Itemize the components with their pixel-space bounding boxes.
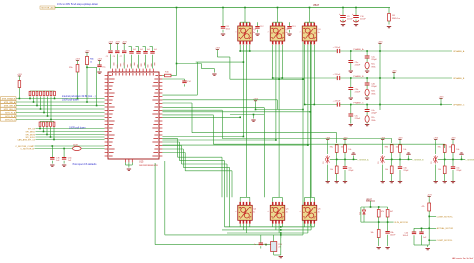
svg-text:SMD-1m: SMD-1m — [392, 18, 400, 20]
svg-text:D1: D1 — [378, 162, 380, 164]
wire climit column — [428, 216, 430, 241]
resistor R sense A lower — [330, 166, 338, 181]
svg-text:10k: 10k — [438, 169, 441, 171]
power +3V3 pullup right — [97, 58, 103, 64]
power +3V3 pullup left — [75, 58, 81, 64]
wire sense feed C — [230, 115, 264, 198]
label SPI_CS — [28, 128, 36, 130]
power +3V3 cap bank — [108, 41, 127, 50]
power +3V3 sense A left — [325, 137, 331, 154]
svg-text:C6a: C6a — [348, 167, 351, 169]
svg-text:R5b: R5b — [69, 67, 72, 69]
capacitor C6 100nF — [113, 51, 120, 69]
wire gate bundle 5 — [162, 153, 232, 198]
power +3V3 row B — [392, 70, 398, 78]
power +3V3 sense C right — [451, 137, 457, 145]
wire MTR_INH_A — [16, 101, 105, 103]
svg-text:1: 1 — [235, 211, 237, 212]
svg-text:220uF: 220uF — [335, 101, 341, 103]
power +3V3 sense B left — [380, 137, 386, 154]
ground IC pad — [126, 162, 133, 170]
label MTR_IN_B — [1, 114, 17, 118]
power +3V3 bus pullup — [17, 74, 23, 81]
ground vlin — [377, 248, 390, 249]
resistor R sense A b — [344, 145, 352, 153]
svg-text:R8b: R8b — [385, 147, 388, 149]
power +3V3 row C — [439, 96, 445, 105]
label MTR_IN_C — [1, 118, 17, 122]
wire sense B out — [385, 152, 412, 166]
wire SPI_MISO — [36, 131, 105, 133]
svg-text:220pF: 220pF — [403, 170, 409, 172]
note bottom right — [452, 257, 474, 260]
ground sense C bottom — [434, 165, 456, 183]
svg-text:C8b: C8b — [390, 232, 393, 234]
wire vbat vlin — [361, 201, 388, 208]
wire CLIMIT_MOTOR+ — [429, 215, 436, 217]
label I_SENSE_C — [465, 159, 474, 161]
svg-text:C4c: C4c — [371, 110, 375, 112]
svg-text:R8a: R8a — [330, 147, 333, 149]
wire cal bend — [162, 115, 213, 144]
wire SPI_CS — [36, 128, 105, 130]
svg-text:220pF: 220pF — [371, 113, 377, 115]
svg-text:C6: C6 — [113, 56, 115, 58]
svg-text:10k: 10k — [385, 169, 388, 171]
label MTR_ENABLE — [1, 97, 17, 101]
resistor R6 1k — [85, 57, 94, 103]
label MTR_INH_A — [1, 100, 17, 104]
capacitor/resistor divider B — [365, 78, 378, 99]
svg-text:VLIN_MOTOR: VLIN_MOTOR — [394, 222, 408, 224]
resistor R30 shunt — [271, 235, 282, 252]
label MTR_INH_B — [1, 104, 17, 108]
wire long rail SP — [165, 161, 303, 235]
capacitor C2B series 220uF — [333, 74, 341, 80]
label I_SENSE_A — [357, 158, 369, 161]
svg-text:SPI_SCLK: SPI_SCLK — [25, 137, 35, 139]
label SPI_SCLK — [25, 137, 35, 139]
svg-text:4k7: 4k7 — [390, 211, 393, 213]
wire gate A down — [242, 45, 244, 137]
wire sense feed B — [162, 111, 311, 113]
svg-text:220pF: 220pF — [456, 170, 462, 172]
capacitor/resistor divider A — [365, 51, 378, 72]
wire source C down — [310, 45, 312, 198]
svg-text:C3c: C3c — [355, 115, 359, 117]
capacitor C7b 1uF — [50, 145, 60, 166]
svg-text:100nF: 100nF — [403, 235, 409, 237]
wire SPI_MOSI — [36, 134, 105, 136]
svg-text:390k: 390k — [371, 66, 375, 68]
svg-text:I_SENSE_B: I_SENSE_B — [412, 159, 424, 161]
op-amp U15 DRV8323RS gate driver IC — [105, 63, 163, 163]
capacitor C9b — [419, 228, 427, 246]
capacitor C4b 100nF — [403, 228, 417, 245]
label OPHASE_B — [453, 77, 465, 80]
svg-text:47k: 47k — [381, 211, 384, 213]
capacitor C3C 220nF — [348, 105, 361, 126]
capacitor C14 1uF — [162, 79, 191, 87]
wire ACTUAL_MOTOR — [414, 227, 436, 229]
capacitor C17 bulk — [150, 47, 158, 69]
ground sense A bottom — [326, 165, 348, 183]
wire MTR_IN_A — [16, 112, 105, 114]
svg-text:C4b: C4b — [405, 233, 408, 235]
svg-text:CLIMIT_MOTOR+: CLIMIT_MOTOR+ — [437, 216, 454, 218]
node PHASE_C — [350, 101, 368, 105]
wire MTR_IN_B — [16, 115, 105, 117]
svg-text:C20: C20 — [263, 244, 266, 246]
capacitor C3B 220nF — [348, 78, 361, 99]
svg-text:C7: C7 — [120, 56, 122, 58]
capacitor C3A 220nF — [348, 51, 361, 72]
svg-text:10k: 10k — [348, 149, 351, 151]
svg-text:47k: 47k — [421, 206, 424, 208]
svg-text:10k: 10k — [449, 147, 452, 149]
svg-text:1: 1 — [300, 211, 302, 212]
power +3V3 right rail — [378, 41, 384, 110]
svg-text:10k: 10k — [370, 232, 373, 234]
svg-text:4x: 4x — [318, 32, 320, 34]
power +3V3 sense mid — [253, 99, 259, 111]
svg-text:220nF: 220nF — [355, 64, 361, 66]
note 100R pull down — [69, 126, 86, 129]
wire phase A row — [240, 50, 452, 52]
junction on VBAT rail — [176, 7, 357, 9]
resistor array spi — [39, 122, 55, 141]
wire source B down — [278, 45, 280, 198]
wire cp loop — [162, 61, 244, 95]
node PHASE_A — [350, 48, 368, 52]
resistor R5b — [69, 65, 79, 100]
transistor Q3 high-side MOSFET — [300, 8, 321, 45]
capacitor C13 100nF — [287, 22, 296, 35]
wire VDRAIN — [176, 8, 202, 65]
resistor R sense C a — [438, 145, 452, 153]
wire nscs long — [162, 117, 241, 119]
transistor array sense B — [378, 155, 385, 164]
node PHASE_B — [350, 75, 368, 79]
label I_SENSE_B — [412, 159, 424, 161]
resistor R41 — [377, 207, 384, 222]
resistor R sense B a — [385, 145, 399, 153]
label MTR_INH_C — [1, 107, 17, 111]
resistor R40 1M — [387, 8, 400, 28]
power +3V3 sense B right — [398, 137, 404, 145]
wire so1 long — [162, 100, 277, 110]
svg-text:1: 1 — [268, 211, 270, 212]
label C_MOTOR_B — [20, 149, 34, 151]
resistor R sense C b — [452, 145, 460, 153]
wire VBAT top rail — [55, 7, 390, 9]
svg-text:Post open:CS defaults: Post open:CS defaults — [73, 163, 98, 166]
wire bottom rail 1 — [225, 224, 315, 227]
svg-text:10k: 10k — [403, 149, 406, 151]
diode D2 zener — [360, 207, 366, 217]
wire gate bundle 3 — [162, 146, 227, 198]
power +3V3 pullup mid — [85, 50, 91, 56]
capacitor C5 100nF — [106, 51, 113, 69]
wire sense input B — [222, 139, 391, 144]
svg-text:C6c: C6c — [456, 167, 459, 169]
resistor R42 — [386, 207, 393, 222]
capacitor C10 220uF — [352, 8, 366, 26]
ground sense C mid — [459, 153, 463, 160]
wire C_MOTOR_B — [35, 148, 105, 150]
svg-text:4x: 4x — [318, 211, 320, 213]
transistor Q1 high-side MOSFET — [235, 8, 256, 45]
capacitor C5a — [97, 65, 106, 73]
svg-text:C6b: C6b — [403, 167, 406, 169]
label VBAT — [313, 4, 320, 7]
svg-text:R8c: R8c — [438, 147, 441, 149]
svg-text:1: 1 — [300, 32, 302, 33]
wire sense input A — [192, 133, 337, 143]
resistor R sense C lower — [438, 166, 446, 181]
svg-text:1: 1 — [268, 32, 270, 33]
svg-text:100n: 100n — [226, 29, 230, 31]
transistor Q2 high-side MOSFET — [268, 8, 289, 45]
transistor Q6 low-side MOSFET — [300, 197, 321, 223]
wire CLIMIT_MOTOR- — [429, 239, 436, 241]
svg-text:VBAT: VBAT — [313, 4, 320, 7]
resistor R43 — [370, 222, 380, 246]
svg-text:220pF: 220pF — [348, 170, 354, 172]
label MOTOR_ADJ — [40, 6, 55, 10]
svg-text:MTR_IN_C: MTR_IN_C — [5, 119, 16, 121]
svg-text:100R pull down: 100R pull down — [69, 126, 86, 129]
wire sense A out — [330, 152, 357, 166]
resistor R sense A a — [330, 145, 344, 153]
wire phase A from Q1 — [239, 45, 250, 52]
svg-text:10k: 10k — [456, 149, 459, 151]
capacitor C sense C 220pF — [451, 167, 463, 181]
wire SPI_SCLK — [36, 136, 105, 138]
svg-text:SPI_MISO: SPI_MISO — [26, 131, 36, 133]
transistor Q5 low-side MOSFET — [268, 197, 289, 223]
wire MTR_ENABLE — [16, 98, 105, 100]
label SPI_MOSI — [26, 134, 36, 136]
wire so3 long — [162, 108, 264, 115]
label SPI_MISO — [26, 131, 36, 133]
svg-text:220nF: 220nF — [355, 118, 361, 120]
wire bottom rail 2 — [222, 224, 311, 230]
label VBAT vlin — [366, 198, 375, 201]
capacitor C11 100nF — [221, 8, 230, 36]
svg-text:4x: 4x — [286, 32, 288, 34]
svg-text:R30: R30 — [278, 244, 281, 246]
svg-text:I_SENSE_C: I_SENSE_C — [465, 159, 474, 161]
svg-text:10k: 10k — [341, 147, 344, 149]
svg-text:4x: 4x — [286, 211, 288, 213]
capacitor C5b 1uF — [62, 148, 72, 167]
label OPHASE_A — [453, 50, 465, 53]
power +3V3 sense A right — [343, 137, 349, 145]
svg-text:10k: 10k — [396, 147, 399, 149]
junction bottom column — [265, 226, 281, 245]
resistor R sense B b — [399, 145, 407, 153]
svg-text:R2c: R2c — [371, 117, 375, 119]
capacitor C2A series 220uF — [333, 47, 341, 53]
wire gate B down — [275, 45, 277, 140]
resistor R17 560R — [73, 144, 82, 150]
svg-text:220pF: 220pF — [371, 59, 377, 61]
svg-text:4x: 4x — [253, 211, 255, 213]
svg-text:390k: 390k — [371, 93, 375, 95]
note internal pull-down — [62, 95, 96, 101]
svg-text:220uF: 220uF — [347, 19, 353, 21]
capacitor C sense A 220pF — [343, 167, 355, 181]
wire bottom rail 3 — [227, 224, 308, 233]
svg-text:220uF: 220uF — [335, 74, 341, 76]
svg-text:C_MOTOR_COMP: C_MOTOR_COMP — [15, 146, 34, 148]
capacitor C8b 100nF — [385, 222, 396, 246]
wire source A down — [246, 45, 248, 198]
note Post open CS — [73, 163, 98, 166]
label VLIN_MOTOR — [394, 222, 408, 224]
svg-text:C_MOTOR_B: C_MOTOR_B — [20, 149, 34, 151]
wire C_MOTOR_COMP — [35, 145, 105, 147]
svg-text:220nF: 220nF — [355, 91, 361, 93]
wire sense input C — [213, 144, 444, 148]
svg-text:4x: 4x — [253, 32, 255, 34]
label CLIMIT_MOTOR+ — [437, 216, 454, 218]
svg-text:C5: C5 — [106, 56, 108, 58]
svg-text:100nF: 100nF — [390, 235, 396, 237]
wire sense feed A — [256, 109, 304, 111]
wire gate bundle 1 — [162, 139, 222, 198]
wire mesh h140 — [162, 139, 276, 141]
power +3V3 sense C left — [433, 137, 439, 154]
wire sense C out — [438, 152, 465, 166]
svg-text:1n: 1n — [254, 244, 256, 246]
svg-text:220pF: 220pF — [371, 86, 377, 88]
ground climit — [414, 240, 430, 250]
capacitor/resistor divider C — [365, 105, 378, 126]
svg-text:220uF: 220uF — [360, 19, 366, 21]
transistor Q4 low-side MOSFET — [235, 197, 256, 223]
wire MTR_INH_B — [16, 105, 105, 107]
svg-text:SPI_CS: SPI_CS — [28, 128, 36, 130]
svg-text:internal pull-down 32.5k (not: internal pull-down 32.5k (not ...) — [62, 95, 96, 98]
resistor array pull-down top — [29, 91, 55, 120]
wire so2 bend — [162, 103, 192, 133]
svg-text:MTR_INH_B: MTR_INH_B — [4, 105, 16, 107]
wire mesh h79 — [230, 78, 304, 80]
svg-text:U15: U15 — [139, 161, 144, 164]
ground sense A mid — [351, 153, 355, 160]
wire VLIN_MOTOR — [364, 221, 394, 223]
resistor R44 — [421, 203, 430, 216]
capacitor C20 shunt filter — [254, 235, 267, 249]
wire mesh h136 — [162, 136, 244, 138]
power +3V3 mesh — [215, 47, 230, 79]
svg-text:560R: 560R — [73, 144, 78, 146]
label CAN_ATM_SPI_CS — [17, 138, 35, 141]
resistor R5 pull — [18, 81, 21, 100]
ground near IC top — [201, 64, 216, 76]
svg-text:1M: 1M — [392, 15, 395, 17]
capacitor C sense B 220pF — [398, 167, 410, 181]
transistor array sense A — [323, 155, 330, 164]
wire phase B from Q2 — [272, 45, 283, 79]
wire vref bend — [162, 110, 222, 138]
capacitor C9 220uF — [339, 8, 353, 26]
svg-text:SPI_MOSI: SPI_MOSI — [26, 134, 36, 136]
wire MTR_IN_C — [16, 119, 105, 121]
resistor R sense B lower — [385, 166, 393, 181]
wire long rail SN — [155, 163, 277, 245]
capacitor C14 bulk — [129, 47, 137, 69]
svg-text:1: 1 — [235, 32, 237, 33]
wire phase B row — [282, 77, 452, 79]
note step-up/step-down — [57, 2, 99, 6]
wire gate C down — [307, 45, 309, 145]
label CLIMIT_MOTOR- — [437, 240, 453, 242]
capacitor C12 100nF — [255, 22, 264, 35]
svg-text:D1: D1 — [323, 162, 325, 164]
capacitor C2C series 220uF — [333, 101, 341, 107]
capacitor C15 bulk — [136, 47, 144, 69]
wire CAN_ATM_SPI_CS — [36, 139, 105, 141]
svg-text:220uF: 220uF — [335, 47, 341, 49]
capacitor C16 bulk — [143, 47, 151, 69]
svg-text:D1: D1 — [431, 162, 433, 164]
wire mesh right column — [302, 42, 310, 230]
wire gate bundle 2 — [162, 142, 224, 227]
ground sense B bottom — [381, 165, 403, 183]
svg-text:CLIMIT_MOTOR-: CLIMIT_MOTOR- — [437, 240, 453, 242]
label OPHASE_C — [453, 103, 465, 106]
wire pullup branch — [86, 67, 97, 106]
resistor R16 100k — [162, 64, 176, 77]
ground shunt — [274, 235, 283, 258]
power +3V3 climit — [427, 194, 433, 203]
wire vlin left — [361, 207, 364, 222]
ground sense B mid — [406, 153, 410, 160]
ground mesh mid — [251, 114, 255, 122]
svg-text:390k: 390k — [371, 120, 375, 122]
svg-text:10k: 10k — [330, 169, 333, 171]
capacitor C7 1uF — [120, 51, 127, 69]
wire phase C from Q3 — [304, 45, 315, 105]
svg-text:100R pull-down: 100R pull-down — [62, 99, 79, 102]
svg-text:MTR_IN_B: MTR_IN_B — [5, 116, 16, 118]
wire mesh h145 — [162, 144, 308, 146]
wire MTR_INH_C — [16, 108, 105, 110]
wire phase C row — [314, 104, 452, 106]
label MTR_IN_A — [1, 111, 17, 115]
label C_MOTOR_COMP — [15, 146, 34, 148]
label U15 value — [139, 161, 158, 167]
label ACTUAL_MOTOR — [437, 227, 454, 230]
svg-text:MTR_INH_C: MTR_INH_C — [4, 109, 16, 111]
svg-text:1k: 1k — [90, 62, 92, 64]
wire gate bundle 4 — [162, 149, 229, 227]
transistor array sense C — [431, 155, 438, 164]
